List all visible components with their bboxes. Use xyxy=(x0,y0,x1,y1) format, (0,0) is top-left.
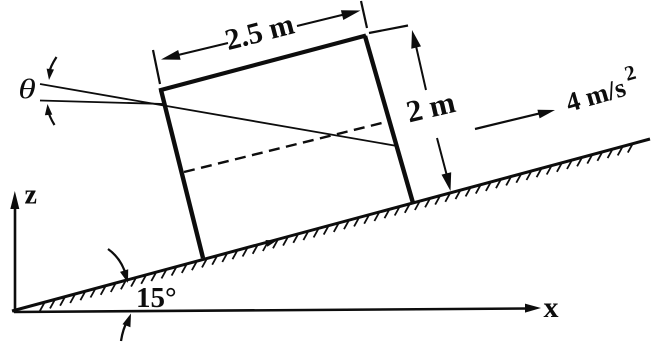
svg-text:2: 2 xyxy=(622,60,639,86)
2.5 m dimension right extension line xyxy=(361,1,367,28)
angle arrow below x-axis xyxy=(121,320,128,341)
2.5 m dimension left extension line xyxy=(153,50,160,84)
equilibrium fluid surface (dashed) xyxy=(184,121,390,172)
svg-text:θ: θ xyxy=(18,74,36,104)
svg-text:15°: 15° xyxy=(136,282,177,314)
svg-text:4 m/s: 4 m/s xyxy=(562,72,629,118)
angle arrow pointing at incline xyxy=(108,249,127,277)
z-axis xyxy=(14,203,17,313)
svg-text:2.5 m: 2.5 m xyxy=(222,8,298,57)
tank top wall xyxy=(159,36,366,91)
theta upper arc arrow xyxy=(49,57,56,73)
tank left wall xyxy=(161,90,203,258)
x-axis xyxy=(14,309,528,313)
theta lower arc arrow xyxy=(48,110,55,125)
acceleration arrow xyxy=(475,113,542,129)
incline hatching xyxy=(40,144,633,312)
tank right wall xyxy=(365,36,413,203)
small arrowhead on incline xyxy=(266,240,278,247)
svg-text:z: z xyxy=(25,180,37,211)
2 m dimension top extension line xyxy=(369,26,408,34)
2 m dimension line lower segment with arrowhead xyxy=(437,138,447,176)
svg-text:x: x xyxy=(544,291,559,324)
svg-text:2 m: 2 m xyxy=(403,84,459,129)
sloshed fluid surface line xyxy=(40,84,397,146)
2 m dimension line upper segment with arrowhead xyxy=(416,46,426,90)
horizontal reference line xyxy=(40,101,164,105)
2.5 m dimension line right segment with arrowhead xyxy=(297,14,346,26)
2.5 m dimension line left segment with arrowhead xyxy=(176,43,228,56)
incline surface xyxy=(12,139,650,311)
